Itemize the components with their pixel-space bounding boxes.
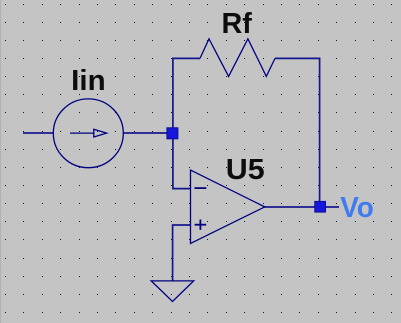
wire: op-amp noninverting input down to ground <box>173 225 191 281</box>
svg-text:U5: U5 <box>226 154 265 186</box>
svg-text:Vo: Vo <box>340 192 374 224</box>
op-amp U5 triangle body <box>191 170 265 244</box>
wire: input lead left of current source <box>23 132 54 134</box>
wire: current source to node A <box>124 132 174 134</box>
wire: op-amp output to node Vo <box>265 206 340 208</box>
svg-text:Iin: Iin <box>71 65 105 97</box>
wire: node A up and right to resistor Rf <box>173 58 200 133</box>
current source Iin: arrow tail <box>70 132 94 134</box>
wire: node A down to op-amp inverting input <box>173 133 191 189</box>
op-amp U5 minus sign (inverting input) <box>195 187 207 189</box>
svg-text:Rf: Rf <box>222 8 253 40</box>
resistor Rf zigzag body <box>200 39 275 77</box>
node Vo junction square <box>315 201 326 212</box>
window left edge shade <box>0 0 1 323</box>
ground symbol triangle <box>151 281 194 302</box>
current source Iin: circle body <box>53 99 123 168</box>
node A junction square <box>167 128 178 139</box>
op-amp U5 plus sign (noninverting input) <box>195 224 207 226</box>
current source Iin: arrow head <box>94 129 107 137</box>
wire: resistor Rf right side down to node Vo <box>275 58 320 206</box>
